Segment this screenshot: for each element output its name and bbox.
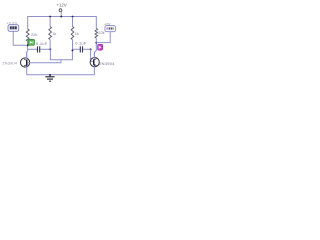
svg-text:0.1uF: 0.1uF: [75, 40, 87, 45]
wire node B to node C: [50, 49, 72, 59]
wire M2 to node E: [96, 32, 110, 43]
svg-text:1k: 1k: [52, 31, 56, 36]
meter M2 body: [105, 26, 116, 32]
svg-text:22k: 22k: [31, 32, 37, 37]
transistor Q1 2N3904: [21, 52, 62, 75]
magenta current indicator: [98, 44, 103, 50]
ground: [45, 75, 54, 81]
wire rail to R1: [49, 17, 51, 27]
wire rail to R3: [72, 17, 74, 27]
svg-text:22k: 22k: [98, 30, 104, 35]
wire rail to R2: [27, 16, 29, 29]
+12V terminal: [59, 9, 62, 12]
capacitor C2 0.1uF: [80, 46, 82, 52]
node A (R2/speaker/C1/Q1-C): [27, 44, 29, 46]
wire node D to Q2 base: [91, 49, 94, 61]
node C (R3/C2): [72, 49, 74, 51]
svg-text:2N3904: 2N3904: [2, 62, 17, 66]
wire C1 to node B: [40, 48, 50, 50]
node D (C2/Q2-B): [90, 48, 92, 50]
svg-text:1k: 1k: [75, 31, 79, 36]
wire node A to C1: [28, 48, 37, 50]
resistor R1 1k: [49, 27, 52, 40]
green current indicator: [28, 39, 34, 45]
resistor R4 22k: [95, 29, 98, 39]
resistor R2 22k: [26, 29, 29, 41]
node E (R4/speaker2/Q2-C): [95, 42, 97, 44]
node ground: [49, 74, 51, 76]
wire Q1 base jog: [60, 60, 62, 63]
wire R2 to Q1 collector: [26, 41, 29, 58]
wire C2 to node D: [83, 48, 91, 50]
node rail-R1: [49, 16, 51, 18]
wire R1 to node B: [49, 40, 51, 49]
wire top power rail: [28, 16, 97, 18]
node B (R1/C1): [49, 48, 51, 50]
resistor R3 1k: [71, 27, 74, 40]
wire rail to R4: [95, 16, 97, 29]
svg-text:0.1uF: 0.1uF: [36, 41, 48, 46]
svg-text:2N3904: 2N3904: [99, 61, 115, 66]
wire R3 to node C: [72, 40, 74, 50]
capacitor C1 0.1uF: [38, 46, 40, 52]
wire ground rail: [27, 74, 95, 76]
wire node C to C2: [73, 48, 80, 50]
wire R4 to Q2 collector: [94, 38, 96, 58]
node rail-R3: [72, 16, 74, 18]
meter M1 body: [8, 25, 19, 32]
transistor Q2 2N3904: [90, 52, 99, 75]
wire terminal to rail: [60, 12, 62, 17]
wire M1 to node A: [13, 31, 27, 45]
node rail-supply: [60, 16, 62, 18]
svg-text:+12V: +12V: [57, 2, 67, 7]
